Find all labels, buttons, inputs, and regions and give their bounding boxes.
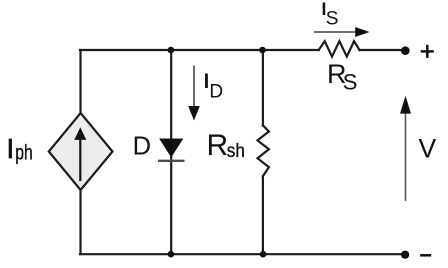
svg-text:V: V	[419, 134, 437, 164]
svg-text:D: D	[209, 82, 223, 103]
svg-text:S: S	[326, 8, 339, 29]
svg-text:sh: sh	[227, 141, 245, 162]
svg-text:I: I	[7, 133, 15, 164]
svg-text:S: S	[343, 70, 358, 95]
svg-text:ph: ph	[15, 141, 33, 164]
svg-text:D: D	[133, 133, 151, 161]
svg-text:R: R	[207, 129, 229, 162]
